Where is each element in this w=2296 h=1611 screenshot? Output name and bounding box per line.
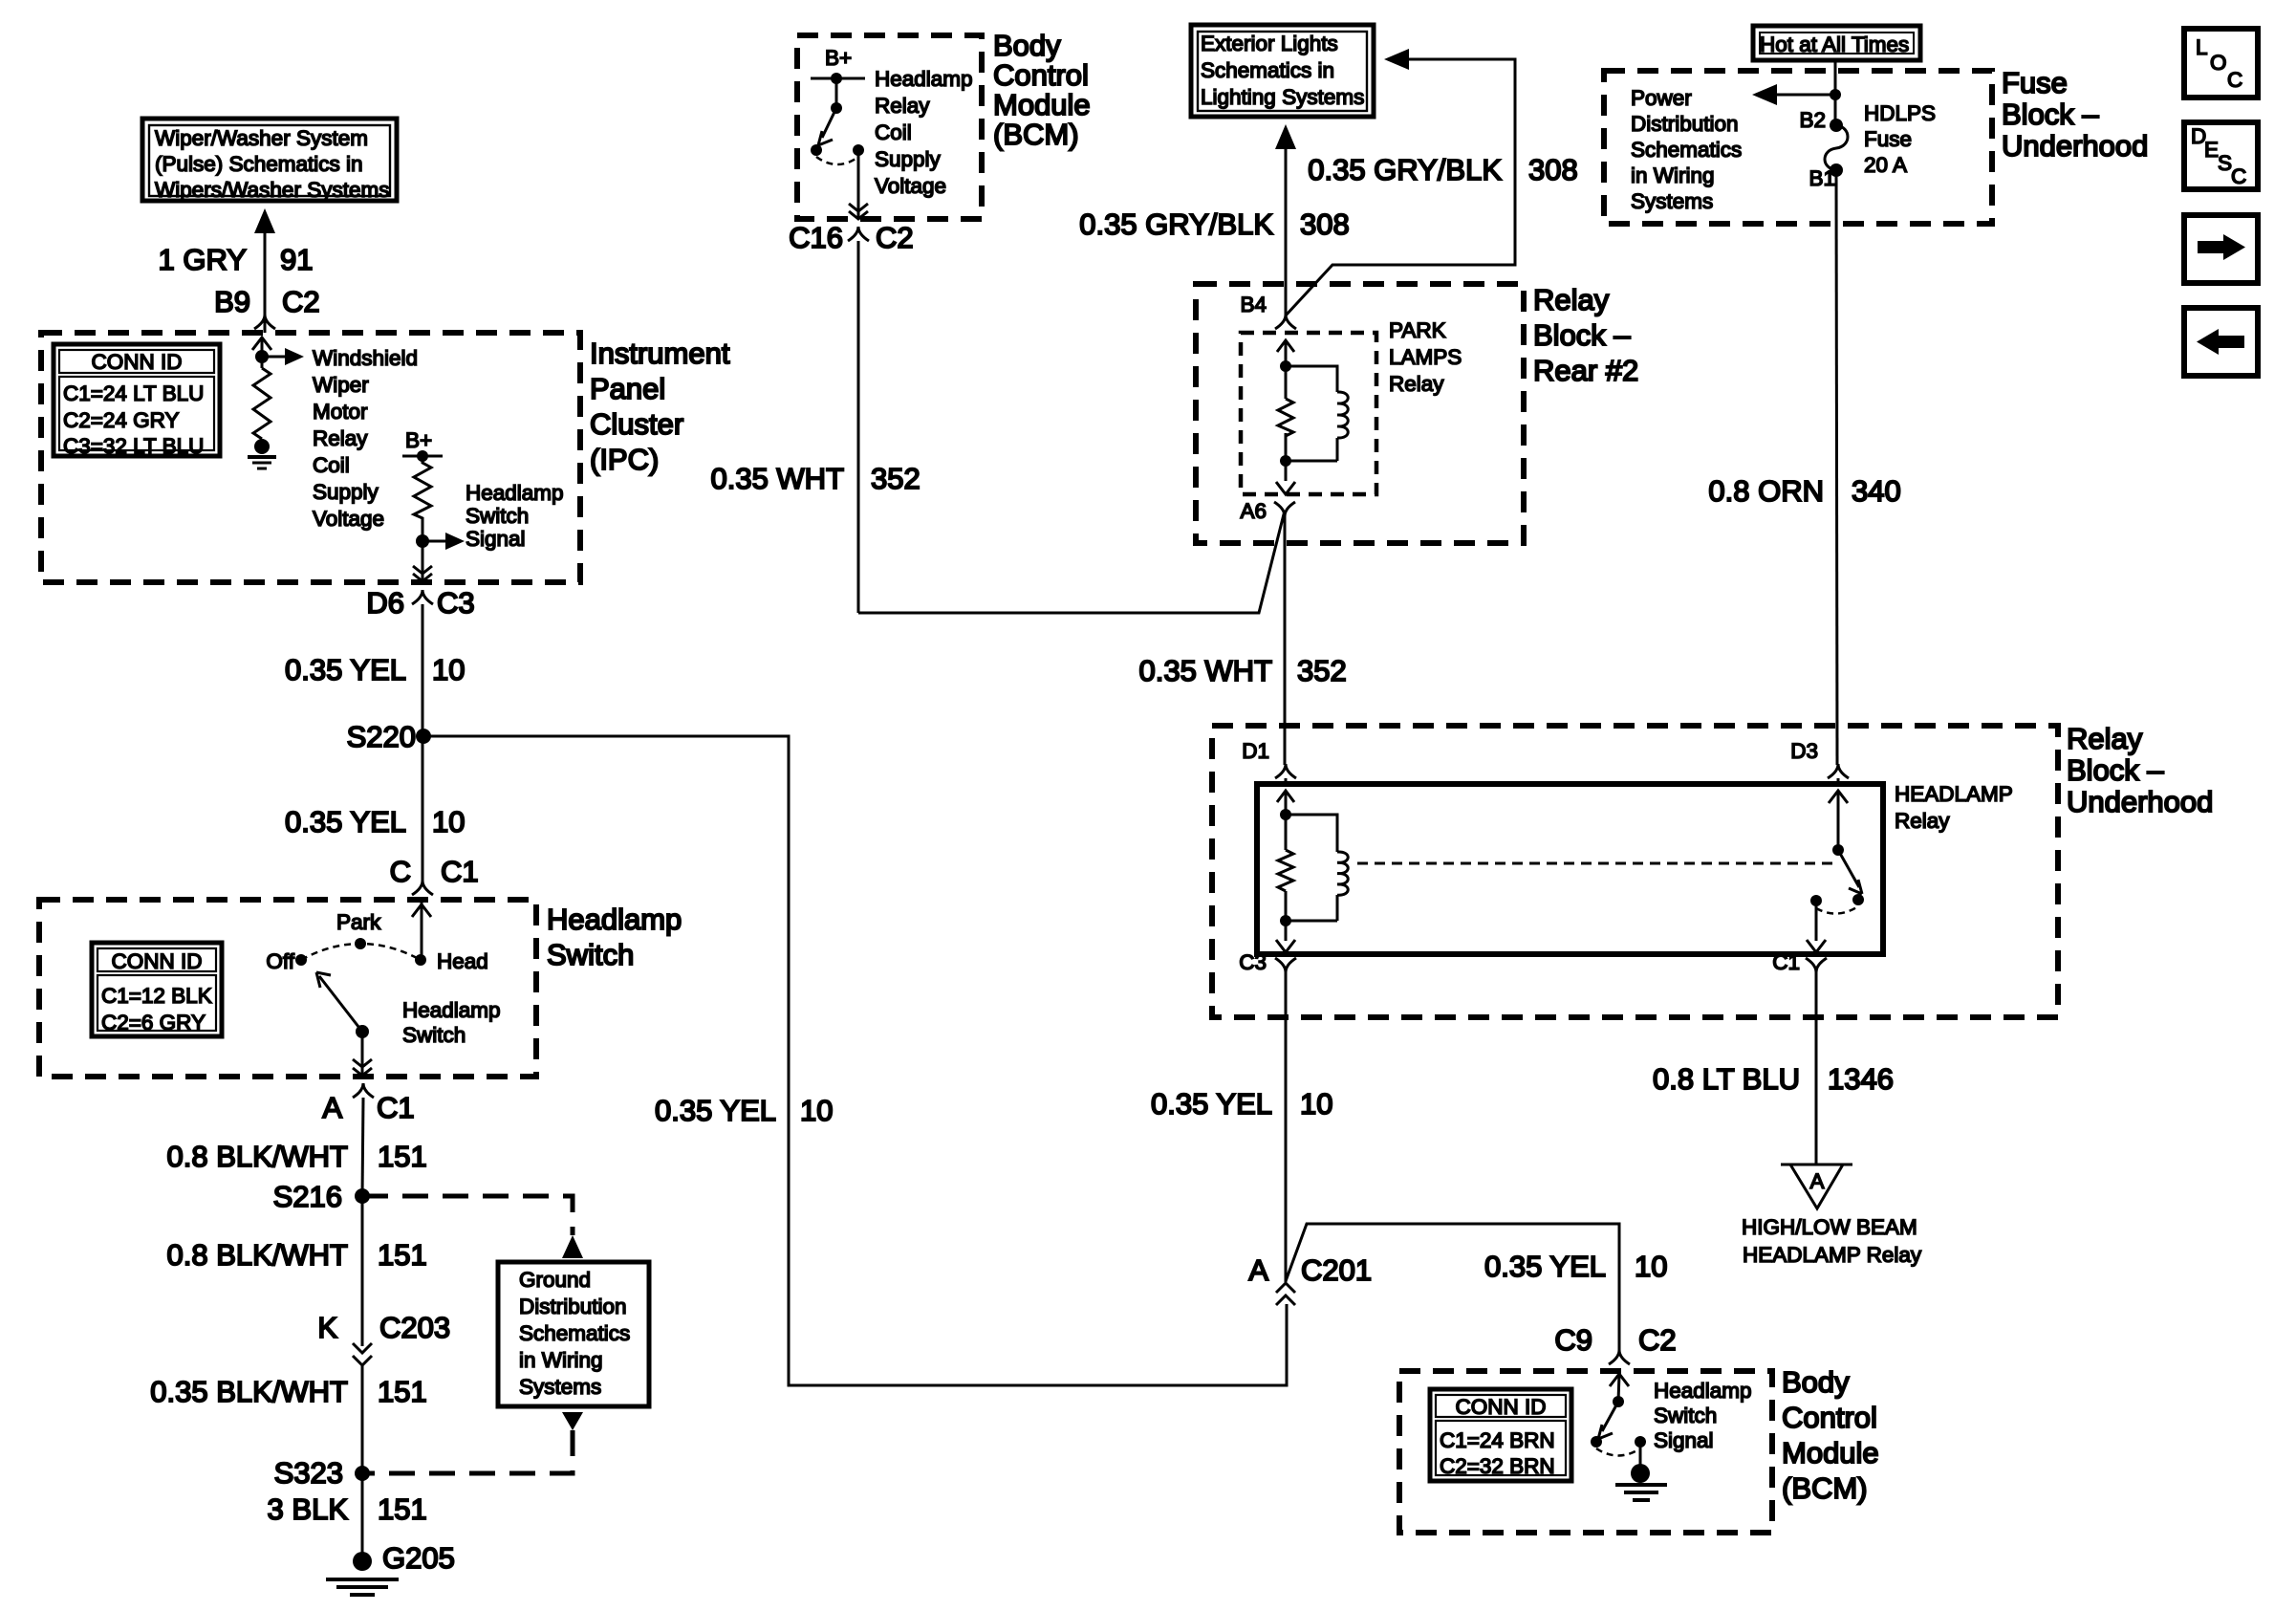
svg-text:Hot at All Times: Hot at All Times [1760,33,1909,56]
label Headlamp Switch (inside) [402,998,501,1047]
svg-text:Head: Head [437,949,488,973]
label Headlamp Switch (outside) [547,903,682,971]
label Relay Block - Rear #2 [1533,283,1638,387]
wire label 0.35 WHT 352 (A6-D1) [1138,654,1346,687]
fuse HDLPS 20A [1799,108,1848,190]
svg-text:LAMPS: LAMPS [1389,345,1462,369]
headlamp switch dashed box [39,900,536,1077]
svg-text:0.35 YEL: 0.35 YEL [285,805,406,838]
label PARK LAMPS Relay [1389,318,1462,396]
svg-text:151: 151 [378,1375,427,1408]
connector A6 [1240,499,1295,523]
svg-text:Ground: Ground [519,1268,591,1292]
label Power Distribution Schematics in Wiring Systems [1631,86,1742,213]
svg-text:A6: A6 [1240,499,1267,523]
svg-text:C2=6 GRY: C2=6 GRY [101,1011,206,1034]
label Fuse Block - Underhood [2002,66,2148,163]
svg-text:10: 10 [800,1094,833,1127]
wire label 0.35 YEL 10 (C3) [1151,1087,1332,1121]
connector D3 [1790,739,1849,778]
svg-text:Switch: Switch [402,1023,466,1047]
svg-text:Coil: Coil [875,120,912,144]
DESC legend box [2184,122,2258,189]
svg-text:Headlamp: Headlamp [547,903,682,936]
label Body Control Module (BCM) top [993,29,1091,151]
wire S323 to G205 [361,1473,364,1553]
svg-text:Wiper/Washer System: Wiper/Washer System [155,126,368,150]
svg-text:0.35 GRY/BLK: 0.35 GRY/BLK [1079,207,1273,241]
svg-text:0.35 YEL: 0.35 YEL [1151,1087,1272,1121]
connector D1 [1242,739,1296,778]
branch wire from S220 to A/C201 (long route) [423,736,1287,1385]
wiper motor relay coil resistor inside IPC [252,337,304,442]
connector B9 C2 [214,285,320,329]
svg-text:C203: C203 [379,1311,450,1344]
svg-text:C2: C2 [876,221,914,254]
off-page reference triangle A [1781,1165,1852,1208]
svg-text:D3: D3 [1790,739,1818,763]
svg-text:Windshield: Windshield [313,346,418,370]
dashed splice wire ground distribution box to S323 [362,1412,583,1473]
wire label 0.8 ORN 340 [1708,474,1900,508]
label Body Control Module (BCM) bottom [1782,1365,1879,1505]
svg-text:C: C [2231,164,2246,188]
svg-text:Cluster: Cluster [590,407,683,441]
headlamp relay solid box [1257,784,1883,954]
svg-text:Headlamp: Headlamp [875,67,973,91]
svg-text:C2=32 BRN: C2=32 BRN [1440,1454,1555,1478]
svg-text:340: 340 [1852,474,1901,508]
svg-text:C1=12 BLK: C1=12 BLK [101,984,212,1008]
svg-text:Relay: Relay [1895,809,1950,833]
svg-text:Switch: Switch [1654,1404,1717,1427]
svg-text:HEADLAMP: HEADLAMP [1895,782,2013,806]
svg-text:Rear #2: Rear #2 [1533,354,1638,387]
wire S216 to K/C203 [361,1196,364,1346]
svg-text:0.8 LT BLU: 0.8 LT BLU [1653,1062,1800,1096]
label HIGH/LOW BEAM HEADLAMP Relay [1742,1215,1922,1267]
wire label 3 BLK 151 [268,1492,427,1526]
svg-text:A: A [1809,1169,1824,1193]
wire label 0.35 GRY/BLK 308 (upper) [1308,153,1578,186]
headlamp switch contacts Off Park Head [266,910,487,973]
svg-text:G205: G205 [382,1541,455,1575]
wire B4 up to exterior lights box with arrow [1275,124,1296,315]
svg-text:Signal: Signal [466,527,526,551]
relay block rear #2 dashed box [1196,284,1524,543]
svg-text:10: 10 [1300,1087,1332,1121]
instrument panel cluster dashed box [41,333,580,582]
svg-text:1346: 1346 [1828,1062,1894,1096]
ground symbol inside IPC [248,439,276,468]
svg-text:Coil: Coil [313,453,350,477]
svg-text:B4: B4 [1240,293,1267,316]
wire C1 down to triangle A [1815,972,1818,1165]
splice S220 [347,720,431,753]
wire to wiper/washer box with up arrow [254,208,275,333]
wire C16/C2 down and right to A6 [858,241,1285,613]
svg-text:0.35 WHT: 0.35 WHT [1138,654,1272,687]
connector C3 [1239,950,1296,974]
svg-text:Systems: Systems [519,1375,601,1399]
svg-text:Switch: Switch [466,504,529,528]
wire label 0.35 WHT 352 [710,462,920,495]
connector C1 (relay output) [1772,950,1827,974]
CONN ID table (headlamp switch) [92,943,222,1036]
wire label 0.35 BLK/WHT 151 [150,1375,426,1408]
svg-text:Supply: Supply [313,480,379,504]
body control module dashed box (top) [797,35,982,219]
ground distribution schematics box [498,1262,649,1406]
svg-text:0.35 BLK/WHT: 0.35 BLK/WHT [150,1375,348,1408]
svg-text:Motor: Motor [313,400,368,424]
svg-text:Fuse: Fuse [1864,127,1912,151]
svg-text:S216: S216 [273,1180,342,1213]
svg-text:352: 352 [871,462,921,495]
ground G205 [326,1541,455,1595]
svg-text:Exterior Lights: Exterior Lights [1201,32,1338,55]
wire label 0.35 GRY/BLK 308 [1079,207,1350,241]
svg-text:0.35 YEL: 0.35 YEL [655,1094,776,1127]
svg-text:B9: B9 [214,285,250,318]
svg-text:Relay: Relay [313,426,368,450]
svg-text:D1: D1 [1242,739,1269,763]
park lamps relay coil and resistor [1276,340,1348,494]
svg-text:C1=24 BRN: C1=24 BRN [1440,1428,1555,1452]
svg-text:10: 10 [432,805,465,838]
label Headlamp Switch Signal (IPC) [466,481,564,551]
svg-text:Voltage: Voltage [875,174,946,198]
wire lever to A pin with double chevron [353,1032,372,1076]
svg-text:20 A: 20 A [1864,153,1907,177]
svg-text:10: 10 [1635,1250,1667,1283]
svg-text:Body: Body [1782,1365,1850,1399]
svg-text:Block –: Block – [1533,318,1631,352]
svg-text:C3: C3 [437,586,475,620]
wire label 0.35 YEL 10 (long branch) [655,1094,833,1127]
right arrow legend box [2184,215,2258,283]
svg-text:0.8 BLK/WHT: 0.8 BLK/WHT [167,1238,349,1272]
svg-text:C1: C1 [377,1091,415,1124]
svg-text:Switch: Switch [547,938,634,971]
svg-text:Wiper: Wiper [313,373,369,397]
wire label 0.35 YEL 10 (to BCM) [1484,1250,1667,1283]
dashed splice wire S216 to ground distribution box [362,1196,583,1258]
label HDLPS Fuse 20 A [1864,101,1936,177]
headlamp switch lever [316,972,369,1038]
svg-text:Headlamp: Headlamp [402,998,501,1022]
svg-text:Control: Control [1782,1401,1877,1434]
svg-text:308: 308 [1300,207,1350,241]
svg-text:A: A [1248,1253,1268,1287]
svg-text:K: K [317,1311,337,1344]
wire A/C1 to S216 [362,1098,363,1196]
svg-text:C16: C16 [789,221,843,254]
connector A C201 [1248,1253,1372,1305]
svg-text:Module: Module [993,88,1091,121]
svg-text:C3=32 LT BLU: C3=32 LT BLU [63,434,204,458]
svg-text:C2: C2 [1638,1323,1677,1357]
svg-text:Fuse: Fuse [2002,66,2068,99]
svg-text:0.8 BLK/WHT: 0.8 BLK/WHT [167,1140,349,1173]
svg-text:Underhood: Underhood [2067,785,2213,818]
headlamp relay coil and resistor [1276,778,1348,954]
svg-text:151: 151 [378,1140,427,1173]
svg-text:Relay: Relay [2067,722,2143,755]
svg-text:Supply: Supply [875,147,942,171]
svg-text:(BCM): (BCM) [1782,1471,1868,1505]
wire D6/C3 to S220 [422,604,424,736]
left arrow legend box [2184,308,2258,376]
svg-text:Relay: Relay [1533,283,1610,316]
svg-text:O: O [2210,51,2227,75]
svg-text:Block –: Block – [2002,98,2099,131]
headlamp relay coil supply switch inside BCM [811,46,868,219]
svg-text:CONN ID: CONN ID [112,949,203,973]
svg-text:Voltage: Voltage [313,507,384,531]
wire label 1 GRY 91 [159,243,314,276]
svg-text:0.35 YEL: 0.35 YEL [1484,1250,1606,1283]
svg-text:PARK: PARK [1389,318,1446,342]
svg-text:Control: Control [993,58,1089,92]
wire A/C201 diagonal right to C9/C2 [1286,1224,1619,1350]
svg-text:151: 151 [378,1492,427,1526]
svg-text:HIGH/LOW BEAM: HIGH/LOW BEAM [1742,1215,1917,1239]
label Relay Block - Underhood [2067,722,2213,818]
label Instrument Panel Cluster (IPC) [590,337,730,476]
svg-text:C201: C201 [1301,1253,1372,1287]
hot at all times box [1753,26,1920,60]
svg-text:(BCM): (BCM) [993,118,1079,151]
svg-text:Schematics: Schematics [519,1321,630,1345]
svg-text:0.35 GRY/BLK: 0.35 GRY/BLK [1308,153,1502,186]
headlamp switch signal input inside BCM [1591,1374,1646,1456]
wire label 0.8 LT BLU 1346 [1653,1062,1894,1096]
svg-text:C9: C9 [1554,1323,1592,1357]
svg-text:in Wiring: in Wiring [1631,163,1715,187]
svg-text:A: A [322,1091,342,1124]
svg-text:Schematics in: Schematics in [1201,58,1334,82]
svg-text:Wipers/Washer Systems: Wipers/Washer Systems [155,178,389,202]
svg-text:C1=24 LT BLU: C1=24 LT BLU [63,381,204,405]
CONN ID table (IPC) [54,344,220,458]
ground symbol inside BCM [1615,1442,1667,1500]
B+ node and headlamp switch signal resistor inside IPC [402,428,465,581]
svg-text:(Pulse) Schematics in: (Pulse) Schematics in [155,152,363,176]
wire S220 to C/C1 [422,736,424,881]
fuse block underhood dashed box [1604,71,1992,224]
svg-text:Body: Body [993,29,1061,62]
wire B1 down to D3 [1836,170,1837,765]
splice S216 [273,1180,370,1213]
svg-text:151: 151 [378,1238,427,1272]
connector C C1 [390,855,479,895]
wiper/washer system reference box [142,119,397,202]
svg-text:D6: D6 [366,586,404,620]
svg-text:10: 10 [432,653,465,686]
svg-text:C3: C3 [1239,950,1267,974]
svg-text:HEADLAMP Relay: HEADLAMP Relay [1743,1243,1922,1267]
svg-text:Headlamp: Headlamp [466,481,564,505]
label Headlamp Relay Coil Supply Voltage (BCM) [875,67,973,198]
svg-text:L: L [2196,35,2208,59]
label Windshield Wiper Motor Relay Coil Supply Voltage [313,346,418,531]
dashed actuation line coil to switch [1357,862,1833,865]
svg-text:S220: S220 [347,720,416,753]
svg-text:Distribution: Distribution [519,1295,627,1318]
headlamp relay switch [1807,778,1864,954]
svg-text:Power: Power [1631,86,1692,110]
svg-text:Park: Park [336,910,381,934]
svg-text:B2: B2 [1799,108,1826,132]
svg-text:Relay: Relay [1389,372,1444,396]
svg-text:in Wiring: in Wiring [519,1348,603,1372]
svg-text:91: 91 [280,243,313,276]
svg-text:C1: C1 [441,855,479,888]
svg-text:HDLPS: HDLPS [1864,101,1936,125]
exterior lights reference box [1191,25,1374,117]
svg-text:S: S [2218,151,2232,175]
svg-text:Signal: Signal [1654,1428,1714,1452]
body control module dashed box (bottom) [1399,1371,1772,1533]
connector K C203 [317,1311,450,1473]
svg-text:Distribution: Distribution [1631,112,1739,136]
svg-text:CONN ID: CONN ID [92,350,183,374]
svg-text:Underhood: Underhood [2002,129,2148,163]
svg-text:Module: Module [1782,1436,1879,1469]
svg-text:0.8 ORN: 0.8 ORN [1708,474,1824,508]
wire label 0.8 BLK/WHT 151 [167,1140,427,1173]
svg-text:E: E [2204,138,2219,162]
wire from Head contact up to C1 pin [412,900,431,960]
svg-text:Relay: Relay [875,94,930,118]
svg-text:1 GRY: 1 GRY [159,243,247,276]
connector A C1 [322,1083,414,1124]
wire C3 down to A/C201 [1285,972,1288,1282]
svg-text:Block –: Block – [2067,753,2164,787]
svg-text:Systems: Systems [1631,189,1713,213]
svg-text:CONN ID: CONN ID [1456,1395,1547,1419]
svg-text:0.35 YEL: 0.35 YEL [285,653,406,686]
svg-text:S323: S323 [274,1456,343,1490]
connector C16 C2 [789,221,914,254]
svg-text:C2: C2 [282,285,320,318]
LOC legend box [2184,29,2258,98]
park lamps relay inner dashed box [1241,333,1376,494]
svg-text:3 BLK: 3 BLK [268,1492,349,1526]
svg-text:(IPC): (IPC) [590,443,659,476]
svg-text:Headlamp: Headlamp [1654,1379,1752,1403]
svg-text:Instrument: Instrument [590,337,730,370]
wire from hot at all times into fuse block [1834,60,1837,125]
svg-text:B+: B+ [405,428,432,452]
power distribution arrow branch [1752,84,1841,105]
svg-text:Off: Off [266,949,294,973]
svg-text:B+: B+ [825,46,852,70]
svg-text:C1: C1 [1772,950,1800,974]
connector B4 [1240,293,1296,329]
label Headlamp Switch Signal (BCM) [1654,1379,1752,1452]
svg-text:C: C [2227,68,2242,92]
connector C9 C2 [1554,1323,1676,1364]
wire label 0.35 YEL 10 [285,805,465,838]
svg-text:C: C [390,855,411,888]
wire A6 to D1 [1284,512,1287,765]
svg-text:Schematics: Schematics [1631,138,1742,162]
svg-text:0.35 WHT: 0.35 WHT [710,462,844,495]
splice S323 [274,1456,370,1490]
svg-text:308: 308 [1528,153,1578,186]
wire label 0.35 YEL 10 [285,653,465,686]
wire B4 right and up into exterior lights box side [1286,49,1515,316]
svg-text:C2=24 GRY: C2=24 GRY [63,408,180,432]
svg-text:352: 352 [1297,654,1347,687]
svg-text:Panel: Panel [590,372,665,405]
svg-text:Lighting Systems: Lighting Systems [1201,85,1364,109]
connector D6 C3 [366,586,474,620]
label HEADLAMP Relay [1895,782,2013,833]
CONN ID table (BCM) [1430,1389,1571,1481]
relay block underhood dashed box [1212,726,2058,1017]
wire label 0.8 BLK/WHT 151 [167,1238,427,1272]
